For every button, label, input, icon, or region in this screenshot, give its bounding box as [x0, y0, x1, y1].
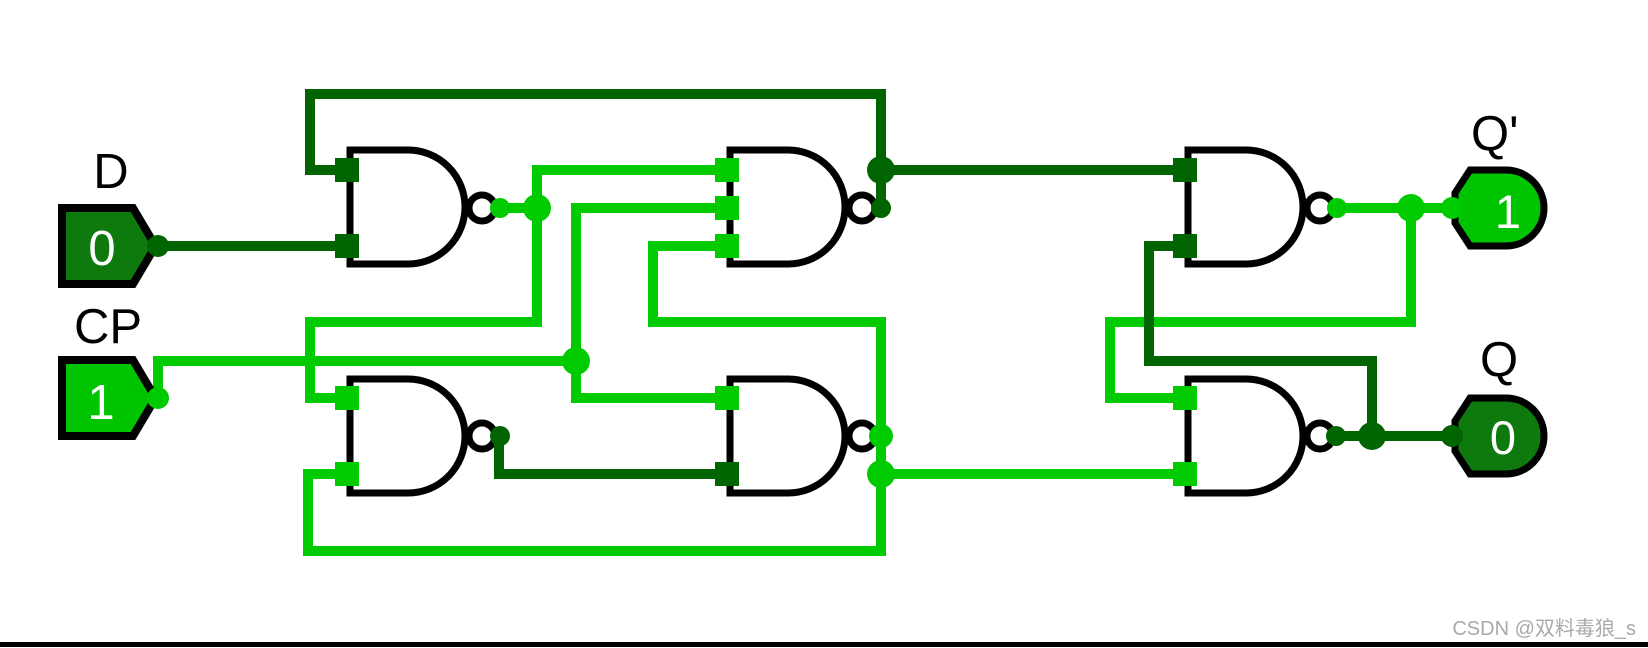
NAND gate D (bottom-middle) [730, 379, 875, 493]
pin square C.in3 [715, 234, 739, 258]
wire D.out to B.in2 [308, 436, 881, 551]
wire C.out to E.in1 [881, 165, 1191, 175]
wire CP input run [158, 361, 576, 398]
svg-text:1: 1 [1495, 185, 1521, 238]
wire D input to A.in2 (low) [158, 241, 353, 251]
output dot gate C [871, 198, 891, 218]
output dot gate E [1327, 198, 1347, 218]
svg-text:Q: Q [1480, 333, 1518, 387]
NAND gate F (bottom-right) [1188, 379, 1333, 493]
output dot gate B [490, 426, 510, 446]
wire A.out to B.in1 [310, 208, 537, 398]
pin square A.in2 [335, 234, 359, 258]
svg-text:0: 0 [88, 222, 115, 276]
input pin CP (value 1) [62, 360, 169, 436]
junction F.out [1358, 422, 1386, 450]
wire F.out to E.in2 [1149, 246, 1372, 436]
junction A.out [523, 194, 551, 222]
NAND gate B (bottom-left) [350, 379, 495, 493]
input pin D (value 0) [62, 208, 169, 284]
pin square E.in1 [1173, 158, 1197, 182]
pin square B.in1 [335, 386, 359, 410]
svg-text:D: D [93, 145, 128, 199]
NAND gate C (top-middle, 3-input) [730, 150, 875, 264]
pin square E.in2 [1173, 234, 1197, 258]
wire E.out to F.in1 [1110, 208, 1411, 398]
junction E.out [1397, 194, 1425, 222]
wire A.out to C.in1 [537, 170, 733, 208]
pin square B.in2 [335, 462, 359, 486]
NAND gate E (top-right) [1188, 150, 1333, 264]
wire E.out stub [1336, 203, 1411, 213]
pin square D.in1 [715, 386, 739, 410]
svg-text:1: 1 [87, 376, 114, 430]
wire A.out stub (high) [499, 203, 537, 213]
wire F.out stub [1332, 431, 1372, 441]
junction D.out [867, 460, 895, 488]
pin square C.in1 [715, 158, 739, 182]
wire F.out to Q pin [1372, 431, 1452, 441]
output dot gate A [490, 198, 510, 218]
wire B.out to D.in2 [499, 436, 733, 474]
junction C.out [867, 156, 895, 184]
wire D.out to F.in2 [881, 469, 1191, 479]
output dot gate D [869, 424, 893, 448]
svg-text:CP: CP [74, 300, 142, 354]
bottom border bar [0, 642, 1648, 647]
wire D.out to C.in3 [653, 246, 881, 436]
wire CP to D.in1 [576, 361, 733, 398]
pin square F.in2 [1173, 462, 1197, 486]
NAND gate A (top-left) [350, 150, 495, 264]
svg-text:Q': Q' [1471, 107, 1518, 161]
wire E.out to Q' pin [1411, 203, 1452, 213]
output pin Q (value 0) [1441, 398, 1544, 474]
pin square F.in1 [1173, 386, 1197, 410]
pin square C.in2 [715, 196, 739, 220]
pin square A.in1 [335, 158, 359, 182]
svg-text:CSDN @双料毒狼_s: CSDN @双料毒狼_s [1452, 617, 1636, 640]
wire C.out feedback loop to A.in1 [310, 94, 881, 208]
wire CP to C.in2 [576, 208, 733, 361]
output pin Q' (value 1) [1441, 170, 1544, 246]
junction CP [562, 347, 590, 375]
output dot gate F [1326, 426, 1346, 446]
pin square D.in2 [715, 462, 739, 486]
svg-text:0: 0 [1490, 411, 1516, 464]
